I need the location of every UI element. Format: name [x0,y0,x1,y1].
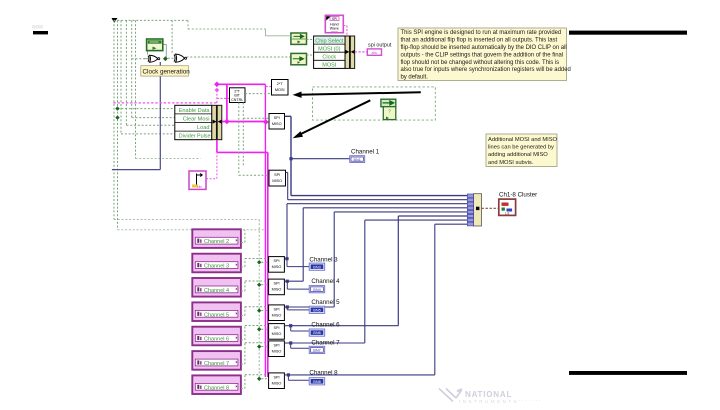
wire miso5 out [284,306,288,308]
wire to load row [126,124,174,126]
bundle B2 enable/clear/load/divider [175,105,212,139]
svg-text:flop should not be changed wit: flop should not be changed without alter… [401,60,560,66]
svg-text:SPI: SPI [273,282,279,286]
magenta wire dashed to mosi box [266,86,272,88]
svg-text:I N S T R U M E N T S ' ' ' ': I N S T R U M E N T S ' ' ' ' ' ' ' [459,399,541,404]
svg-text:Channel 3: Channel 3 [204,264,229,270]
wire diamond to gate2 [168,57,174,59]
magenta wire bundle2 out [217,84,266,121]
junction diamond row7 [257,344,261,348]
svg-text:Ch1-8 Cluster: Ch1-8 Cluster [499,192,537,199]
wire channel8 riser [288,224,467,375]
svg-text:BN4: BN4 [313,288,320,292]
wire dashed rail y20 [114,19,189,21]
svg-text:This SPI engine is designed to: This SPI engine is designed to run at ma… [401,30,562,36]
wire channel5 riser [288,212,467,307]
svg-text:by default.: by default. [401,75,429,81]
feedback node clock [147,39,163,51]
svg-text:SPI: SPI [273,376,279,380]
note box 2 [486,134,558,167]
feedback loop wire [144,45,166,59]
wire ch8 terminal stub [288,375,309,380]
magenta diamond j2 [214,82,220,88]
xor gate G2 [174,54,187,62]
wire rail to icon1 [266,29,291,36]
wire ch3 terminal stub [287,259,309,267]
svg-text:Channel 6: Channel 6 [204,337,229,343]
wire miso3 out [284,258,287,260]
svg-text:2*T: 2*T [277,82,284,86]
svg-text:Chip Select: Chip Select [315,38,344,44]
wire ch4 terminal stub [287,281,309,289]
wire miso8 out [284,374,288,376]
subvi SPI MISO ch6 [269,324,285,340]
wire ch5 name jog [241,307,269,316]
subvi SPI MISO ch1 [269,114,285,130]
svg-text:MISO: MISO [272,122,282,126]
junction diamond row5 [257,308,261,312]
wire dashed rail y158 [136,158,201,160]
constant Channel 5 [192,302,241,321]
svg-text:BN5: BN5 [313,308,320,312]
junction dot ch8 [287,373,290,376]
feedback node icon2 [291,53,307,64]
svg-text:Clock: Clock [322,55,336,61]
wire dashed rail y219 [114,219,259,221]
svg-text:BN6: BN6 [313,331,320,335]
svg-text:BN7: BN7 [313,349,320,353]
xor gate G1 [148,55,160,62]
svg-text:NATIONAL: NATIONAL [465,390,512,399]
svg-text:that an additional flip flop i: that an additional flip flop is inserted… [401,38,558,44]
magenta wire dashed divider icon [206,152,217,178]
svg-text:MOSI (0): MOSI (0) [318,47,340,53]
svg-text:Enable Data: Enable Data [179,108,211,114]
junction diamond row8 [257,377,261,381]
wire ch6 name jog [241,326,269,340]
svg-text:Clear Mosi: Clear Mosi [183,117,210,123]
wire to enable data row [118,108,175,110]
svg-text:flip-flop should be inserted a: flip-flop should be inserted automatical… [401,45,567,51]
wire clock rail to icon2 [187,56,291,58]
feedback node icon3 [381,99,396,119]
magenta diamond j1 [224,119,230,125]
svg-text:MISO: MISO [272,288,282,292]
constant Channel 4 [192,278,241,297]
svg-text:and MOSI subvis.: and MOSI subvis. [488,160,534,166]
junction dot ch7 [289,341,292,344]
magenta diamond j3 [263,119,269,125]
wire spi output dashed [355,51,368,53]
wire channel2 [286,172,468,199]
junction diamond row3 [257,260,261,264]
constant Channel 6 [192,327,241,346]
svg-text:MOSI: MOSI [275,88,285,92]
wire dashed rail y229 [118,229,266,231]
svg-text:BIT: BIT [234,93,240,97]
svg-text:SPI: SPI [273,308,279,312]
svg-text:Channel 8: Channel 8 [309,369,338,376]
magenta bus vertical A [264,84,266,377]
wire dashed vertical v1 [113,20,115,219]
terminal channel3 [309,263,325,270]
subvi SPI BIT CNTRL [230,88,246,103]
junction diamond row4 [257,283,261,287]
bundle B1 chip/mosi0/clock/mosi [314,36,346,69]
svg-text:Channel 2: Channel 2 [204,239,229,245]
constant Channel 2 [192,229,241,248]
subvi SPI MISO ch5 [269,305,285,321]
svg-text:Channel 5: Channel 5 [204,312,229,318]
svg-text:Channel 7: Channel 7 [204,361,229,367]
slide dash black top-left [33,31,48,34]
constant Channel 8 [192,375,241,394]
svg-text:MISO: MISO [272,179,282,183]
junction dot ch4 [286,280,289,283]
junction dot ch6 [289,324,292,327]
svg-text:BN8: BN8 [313,380,320,384]
subvi SPI hand wave icon [325,15,343,33]
divider pulse vi icon [189,171,206,189]
subvi SPI MISO ch8 [269,373,285,389]
svg-text:lines can be generated by: lines can be generated by [488,145,554,151]
subvi MOSI [272,80,289,96]
feedback node icon1 [291,33,307,44]
terminal channel1 [350,156,365,163]
indicator spi output [367,49,381,55]
subvi SPI MISO ch4 [269,279,285,295]
wire cntrl down b [243,103,269,167]
wire dashed vertical v4 [125,20,127,125]
wire ch8 name jog [241,375,269,389]
indicator Ch1-8 cluster icon [499,199,516,215]
svg-text:MISO: MISO [272,350,282,354]
note box 1 [398,28,571,81]
svg-text:MISO: MISO [272,332,282,336]
junction dot ch3 [285,257,288,260]
constant Channel 3 [192,254,241,273]
svg-text:Divider Pulse: Divider Pulse [179,134,211,140]
wire channel3 riser [287,204,467,259]
svg-text:SPI: SPI [273,326,279,330]
wire dashed rail y29 [188,20,266,29]
junction dot ch5 [286,305,289,308]
annotation arrow 1 [298,92,421,94]
svg-text:adding additional MISO: adding additional MISO [488,152,548,158]
wire dashed vertical v2 [117,20,119,229]
left boolean rail arrow [112,18,118,23]
wire channel1 terminal [291,158,350,160]
subvi SPI MISO ch2 [269,170,286,186]
wire cntrl to mosi [245,93,272,95]
wire gate1 input [132,58,148,60]
magenta diamond j4 [215,88,220,93]
junction dot channel1 [289,157,292,160]
svg-text:BN3: BN3 [313,265,320,269]
svg-text:Channel 8: Channel 8 [204,385,229,391]
svg-text:div: div [198,185,203,189]
slide bar black bottom-right [569,371,687,375]
junction diamond d2 [115,115,119,119]
svg-text:SPI: SPI [274,173,280,177]
svg-text:wave: wave [331,30,338,34]
wire dashed vertical v3 [120,20,122,133]
wire dashed vertical v6 [135,20,137,158]
svg-text:MISO: MISO [272,314,282,318]
magenta wire dashed to cntrl [217,90,230,103]
svg-text:outputs - the CLIP settings th: outputs - the CLIP settings that govern … [401,52,564,58]
wire icon1 to bundle [307,39,314,41]
bundle B1 output arrows [345,50,354,54]
svg-text:SPI: SPI [273,344,279,348]
terminal channel7 [309,346,325,353]
svg-text:Channel 5: Channel 5 [311,299,340,306]
svg-text:also true for inputs where syn: also true for inputs where synchronizati… [401,67,571,73]
watermark NI eagle [439,389,462,402]
svg-text:Load: Load [197,125,209,131]
magenta wire dashed long left [113,102,217,104]
wire icon2 to bundle [307,54,314,56]
svg-text:Clock generation: Clock generation [143,68,191,75]
constant Channel 7 [192,351,241,370]
junction dot cluster out [476,207,479,210]
svg-text:Channel 4: Channel 4 [204,288,229,294]
svg-text:CNTRL: CNTRL [231,98,243,102]
svg-text:spi output: spi output [368,42,392,48]
bundle B1 tan bars [345,36,355,68]
wire channel1 [285,116,468,195]
wire miso7 out [284,342,290,344]
subvi SPI MISO ch7 [269,341,285,357]
wire dashed vertical v7 to gate2 [171,20,173,53]
wire ch6 terminal stub [291,326,310,331]
slide dash faint [32,25,43,29]
svg-text:SPI: SPI [273,259,279,263]
wire cluster out [482,207,499,209]
magenta wire bundle2 bottom [217,140,268,377]
annotation arrow 2 [298,100,371,135]
svg-text:Channel 7: Channel 7 [311,339,340,346]
svg-text:BN1: BN1 [354,158,361,162]
svg-text:Channel 6: Channel 6 [311,321,340,328]
wire ch4 name jog [241,281,269,291]
svg-text:Channel 4: Channel 4 [311,278,340,285]
wire ch3 name jog [241,259,269,267]
wire ch5 terminal stub [287,307,309,310]
terminal channel4 [309,286,325,293]
wire name bus vertical [258,220,260,379]
junction diamond clock [163,56,168,61]
svg-text:SPI: SPI [274,116,280,120]
wire dashed vertical v5 [131,20,133,117]
subvi SPI MISO ch3 [269,257,285,273]
svg-text:Additional MOSI and MISO: Additional MOSI and MISO [488,137,558,143]
label Clock generation [141,66,190,76]
svg-text:Channel 1: Channel 1 [351,149,380,156]
navy wire vertical clock [112,62,160,170]
svg-text:abc: abc [372,51,378,55]
wire channel4 riser [288,208,467,281]
svg-text:SPI: SPI [332,17,337,21]
wire to clear mosi row [132,117,175,119]
junction diamond row6 [257,327,261,331]
svg-text:1-8: 1-8 [505,211,510,215]
terminal channel5 [309,306,325,313]
build cluster node [467,194,481,226]
wire ch7 terminal stub [291,343,310,348]
terminal channel8 [309,378,325,385]
junction diamond d1 [115,106,119,110]
wire miso4 out [284,280,288,282]
wire to divider pulse row [121,133,175,135]
wire channel7 riser [291,220,468,343]
dashed structure frame [313,87,436,120]
svg-text:MISO: MISO [272,265,282,269]
slide bar black top-right [569,31,687,35]
wire cntrl down a [239,103,269,176]
wire miso6 out [284,325,290,327]
bundle B2 tan bars [212,105,222,139]
terminal channel6 [309,329,325,336]
wire hand wave to bundle [343,26,347,37]
wire ch7 name jog [241,343,269,365]
svg-text:MISO: MISO [272,382,282,386]
wire ch2 name jog [241,230,245,243]
svg-text:MOSI: MOSI [322,63,337,69]
wire channel6 riser [291,216,468,326]
bundle B2 output arrows [213,120,222,124]
